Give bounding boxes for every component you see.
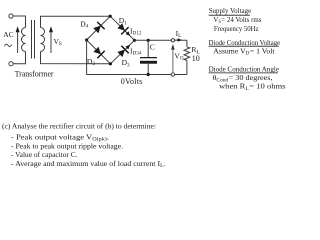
node: bridge top: [109, 15, 112, 18]
svg-text:IL: IL: [176, 29, 182, 39]
svg-text:- Value of capacitor C.: - Value of capacitor C.: [11, 150, 78, 159]
node: capacitor bottom junction: [147, 73, 150, 76]
wire: bridge edge left-top: [87, 16, 111, 40]
wire: bridge left node down to 0V rail: [86, 40, 88, 75]
AC waveform tilde: [4, 44, 11, 46]
wire: bridge edge bottom-right: [110, 40, 134, 64]
svg-text:Supply Voltage: Supply Voltage: [209, 6, 252, 15]
primary polarity arrow: [17, 30, 19, 53]
node: capacitor top junction: [147, 39, 150, 42]
node: bridge right: [133, 39, 136, 42]
svg-text:ID34: ID34: [130, 46, 142, 56]
svg-text:VS: VS: [54, 37, 62, 47]
wire: secondary top to bridge top node: [41, 16, 111, 27]
wire: bridge edge top-right: [110, 16, 134, 40]
resistor RL: [184, 47, 190, 61]
wire: bridge edge left-bottom: [87, 40, 111, 64]
transformer primary winding: [22, 28, 26, 52]
transformer core: [31, 20, 33, 59]
svg-text:ID12: ID12: [130, 26, 142, 36]
transformer secondary winding: [41, 28, 45, 52]
wire: 0V rail: [87, 74, 187, 76]
node: bridge bottom: [109, 62, 112, 65]
svg-text:Transformer: Transformer: [15, 70, 54, 79]
arrow IL: [176, 39, 180, 41]
output terminal (top): [171, 39, 174, 42]
wire: load branch down: [186, 40, 188, 47]
arrow ID34 on wire: [125, 45, 130, 50]
svg-text:D1: D1: [119, 16, 127, 26]
wire: top terminal to primary: [13, 16, 25, 28]
svg-text:D2: D2: [87, 57, 95, 67]
svg-text:AC: AC: [3, 30, 13, 39]
svg-text:10: 10: [192, 54, 200, 63]
svg-text:- Average and maximum value of: - Average and maximum value of load curr…: [11, 159, 166, 169]
svg-text:Assume VD= 1 Volt: Assume VD= 1 Volt: [213, 46, 275, 56]
svg-text:VO: VO: [174, 51, 183, 61]
svg-text:C: C: [150, 42, 155, 51]
arrow VS: [50, 30, 52, 53]
AC source terminal (bottom): [9, 62, 13, 66]
svg-text:Frequency 50Hz: Frequency 50Hz: [214, 24, 259, 33]
diode D4: [93, 26, 101, 34]
node: bridge left: [85, 38, 88, 41]
arrow ID12 on wire: [126, 31, 131, 36]
wire: bridge right node to load: [135, 39, 187, 41]
svg-text:0Volts: 0Volts: [121, 77, 143, 86]
diode D3: [117, 50, 125, 58]
output terminal (bottom): [171, 73, 174, 76]
wire: secondary bottom to bridge bottom node: [41, 52, 111, 64]
svg-text:D4: D4: [80, 19, 88, 29]
svg-text:when RL= 10 ohms: when RL= 10 ohms: [219, 82, 286, 92]
AC source terminal (top): [9, 14, 13, 18]
svg-text:(c) Analyse the rectifier circ: (c) Analyse the rectifier circuit of (b)…: [2, 121, 156, 130]
arrow VO: [172, 48, 174, 72]
diode D1: [117, 23, 125, 31]
wire: primary bottom lead: [13, 52, 25, 64]
capacitor C: [147, 40, 149, 57]
diode D2: [93, 47, 101, 55]
svg-text:D3: D3: [122, 58, 130, 68]
